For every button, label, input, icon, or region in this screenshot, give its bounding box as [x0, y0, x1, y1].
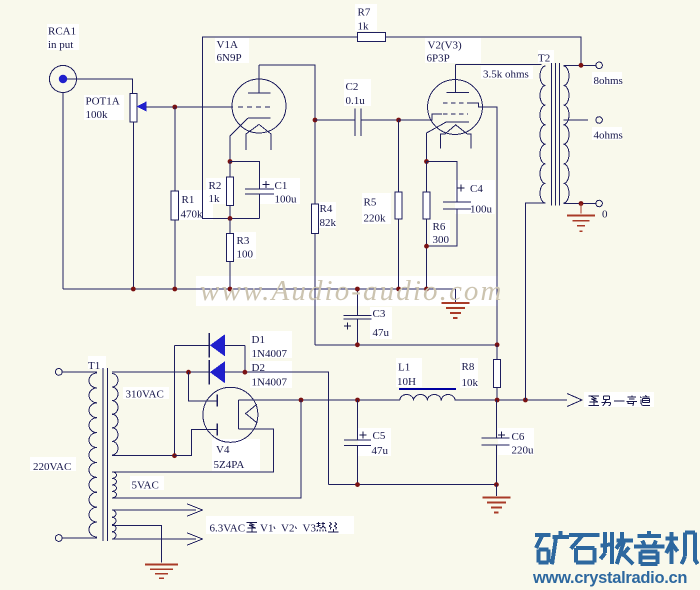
V1A plate	[248, 92, 271, 94]
resistor R7	[357, 33, 385, 42]
wire: wiper to V1 grid	[146, 106, 233, 108]
5VAC top lead to V4 cathode	[112, 429, 273, 472]
ground symbol at secondary 0	[580, 204, 582, 214]
junction at 426.5,161.5	[424, 159, 429, 164]
6.3VAC lead arrow top	[112, 509, 196, 511]
T1 core	[102, 368, 104, 541]
resistor R1 470k	[174, 107, 176, 289]
svg-text:47u: 47u	[373, 327, 390, 339]
junction at 174.5,455.7	[172, 453, 177, 458]
junction at 581,65.3	[579, 63, 584, 68]
capacitor C5 47u filter	[357, 400, 359, 440]
capacitor C2 0.1u coupling	[315, 119, 355, 121]
logo: crystal radio site name	[535, 533, 550, 537]
svg-text:R8: R8	[462, 361, 475, 373]
svg-text:220VAC: 220VAC	[33, 461, 71, 473]
resistor R5 220k grid leak	[398, 120, 400, 289]
svg-text:C1: C1	[275, 180, 288, 192]
junction at 398.6,120	[396, 118, 401, 123]
svg-text:220k: 220k	[364, 213, 387, 225]
resistor R3 100	[229, 218, 231, 289]
junction at 398.6,289	[396, 287, 401, 292]
svg-text:0: 0	[602, 209, 608, 221]
svg-text:1N4007: 1N4007	[252, 377, 288, 389]
ground symbol at 6.3VAC center tap	[145, 564, 178, 566]
junction at 301,400	[299, 398, 304, 403]
svg-text:www.Audio-audio.com: www.Audio-audio.com	[200, 275, 504, 307]
C6 plus sign	[498, 434, 505, 436]
svg-text:5Z4PA: 5Z4PA	[214, 459, 245, 471]
svg-text:C6: C6	[512, 431, 525, 443]
V2 cathode	[446, 121, 469, 123]
svg-text:V2: V2	[281, 523, 294, 535]
V1A grid (dashed)	[238, 106, 273, 108]
T1 310VAC winding	[112, 374, 118, 456]
svg-text:in put: in put	[48, 39, 73, 51]
junction at 357.5,484.6	[355, 482, 360, 487]
svg-text:8ohms: 8ohms	[594, 75, 623, 87]
svg-text:V3: V3	[303, 523, 317, 535]
svg-text:V4: V4	[216, 444, 230, 456]
svg-text:100u: 100u	[470, 204, 493, 216]
secondary 4 ohm tap	[564, 119, 589, 121]
svg-text:www.crystalradio.cn: www.crystalradio.cn	[532, 569, 687, 587]
resistor R8 10k decoupling	[496, 345, 498, 400]
wire: D1 out down to D2 line	[244, 345, 246, 372]
6.3VAC lead arrow bottom	[112, 538, 196, 540]
svg-text:6P3P: 6P3P	[427, 53, 450, 65]
B+ main rail	[239, 399, 401, 401]
ground symbol under C6	[495, 485, 497, 496]
junction at 581,203.5	[579, 201, 584, 206]
svg-text:C2: C2	[346, 81, 359, 93]
junction at 244.9,372.2	[243, 370, 248, 375]
capacitor C6 220u filter	[495, 400, 497, 438]
potentiometer POT1A	[130, 93, 137, 122]
wire: 310V top to V4 top plate	[189, 372, 218, 401]
wire: POT bottom to ground bus	[132, 122, 134, 289]
C5 plus sign	[360, 434, 367, 436]
V2 control grid (dashed)	[443, 113, 468, 115]
svg-text:T2: T2	[538, 53, 550, 65]
svg-text:R2: R2	[209, 180, 222, 192]
junction at 497.1,344.8	[495, 342, 500, 347]
junction at 497.1,400	[495, 398, 500, 403]
svg-text:82k: 82k	[320, 217, 337, 229]
capacitor C3 47u decoupling	[356, 289, 358, 315]
svg-text:D1: D1	[252, 334, 265, 346]
diode D2 1N4007	[189, 371, 209, 373]
ground bus (input stage)	[63, 288, 455, 290]
wire: V2 plate to T2 primary	[456, 64, 542, 66]
label (Chinese): to-other-channel at B+ arrow	[589, 395, 600, 397]
junction at 188.5,372.2	[186, 370, 191, 375]
svg-text:10k: 10k	[462, 377, 479, 389]
RCA jack RCA1	[50, 66, 77, 93]
triode V1A	[232, 79, 286, 133]
ground line (rectifier/filter)	[329, 484, 497, 486]
wire: cathode node to C1 top	[230, 162, 260, 190]
svg-text:1N4007: 1N4007	[252, 348, 288, 360]
svg-text:6.3VAC: 6.3VAC	[210, 523, 246, 535]
junction at 357.4,289	[355, 287, 360, 292]
svg-text:RCA1: RCA1	[48, 26, 76, 38]
wire: D1 anode line down to 310V bottom	[174, 345, 176, 455]
svg-text:470k: 470k	[181, 209, 204, 221]
svg-text:3.5k ohms: 3.5k ohms	[483, 69, 529, 81]
5VAC bottom lead to B+	[112, 400, 301, 498]
terminal 0	[596, 200, 603, 207]
T2 primary winding	[540, 66, 546, 203]
svg-text:R1: R1	[182, 194, 195, 206]
svg-text:V1: V1	[260, 523, 273, 535]
junction at 357.4,344.8	[355, 342, 360, 347]
svg-text:R5: R5	[364, 197, 377, 209]
svg-text:V2(V3): V2(V3)	[428, 40, 463, 52]
resistor R6 300	[426, 162, 428, 290]
V2 screen tap to B+	[468, 103, 498, 345]
junction at 174.8,107	[172, 105, 177, 110]
wire: RCA ground down to ground bus	[62, 93, 64, 290]
T1 5VAC winding	[112, 472, 117, 498]
beam tetrode V2 (6P3P)	[428, 80, 483, 135]
resistor R2 1k	[229, 162, 231, 219]
diode D1 1N4007	[175, 344, 209, 346]
310VAC bottom lead	[112, 455, 175, 457]
svg-text:L1: L1	[398, 362, 410, 374]
secondary 8 ohm lead	[564, 64, 596, 66]
junction at 230,161.5	[228, 159, 233, 164]
T1 primary terminal top	[55, 369, 62, 376]
junction at 230,218.4	[228, 216, 233, 221]
ground symbol at bus end	[454, 289, 456, 303]
junction at 525.4,400	[523, 398, 528, 403]
V4 filament	[246, 404, 257, 422]
svg-text:100k: 100k	[86, 109, 109, 121]
T2 core	[551, 63, 553, 206]
C4 plus sign	[458, 187, 465, 189]
svg-text:1k: 1k	[209, 193, 221, 205]
rectifier tube V4 5Z4PA	[203, 387, 258, 442]
terminal 8ohms	[596, 62, 603, 69]
choke L1 10H	[400, 395, 455, 401]
T1 primary terminal bottom	[55, 535, 62, 542]
T1 primary winding	[89, 373, 97, 537]
capacitor C4 100u cathode bypass	[427, 162, 458, 203]
resistor R4 82k (plate load)	[314, 120, 316, 345]
arrow to other channel	[567, 394, 582, 407]
wire: R2/C1 bottom node with feedback	[230, 217, 260, 219]
wire: 310V bottom to V4 bottom plate	[175, 429, 218, 455]
B+ sub-rail to preamp	[315, 344, 497, 346]
V4 bottom plate	[216, 424, 218, 436]
svg-text:100u: 100u	[275, 194, 298, 206]
junction at 496.4,484.6	[494, 482, 499, 487]
V1A cathode	[248, 117, 271, 119]
svg-text:R7: R7	[358, 7, 371, 19]
V4 top plate	[216, 395, 218, 407]
svg-text:0.1u: 0.1u	[346, 95, 366, 107]
svg-text:POT1A: POT1A	[86, 96, 120, 108]
svg-text:V1A: V1A	[217, 39, 238, 51]
junction at 315,120	[313, 118, 318, 123]
svg-text:C5: C5	[373, 430, 386, 442]
T2 primary bottom lead down to B+	[525, 203, 545, 400]
junction at 357.5,400	[355, 398, 360, 403]
C1 plus sign	[263, 184, 270, 186]
junction at 230,289	[228, 287, 233, 292]
junction at 426.5,289	[424, 287, 429, 292]
wire: feedback line from 8-ohm tap through R7 to V1 cathode network	[203, 37, 582, 218]
svg-text:4ohms: 4ohms	[594, 130, 623, 142]
svg-text:C4: C4	[470, 183, 483, 195]
wiper arrow	[137, 102, 146, 111]
wire: V1A plate up/over to R4 node	[259, 65, 315, 120]
junction at 426.5,246.2	[424, 244, 429, 249]
junction at 133.3,289	[131, 287, 136, 292]
V2 screen grid (dashed)	[443, 102, 468, 104]
svg-text:R3: R3	[237, 235, 250, 247]
V1A heater	[246, 124, 271, 150]
6.3VAC center tap to ground	[112, 526, 161, 563]
svg-text:C3: C3	[373, 308, 386, 320]
svg-text:220u: 220u	[512, 445, 535, 457]
T1 6.3VAC winding	[112, 510, 116, 539]
svg-text:R6: R6	[433, 221, 446, 233]
junction at 174.8,289	[172, 287, 177, 292]
svg-text:100: 100	[237, 249, 254, 261]
wire: grid node into V2	[399, 114, 442, 120]
V2 heater	[440, 125, 471, 149]
310VAC top lead	[112, 371, 189, 373]
V4 cathode	[238, 400, 240, 429]
svg-text:47u: 47u	[372, 445, 389, 457]
capacitor C1 100u	[245, 188, 274, 190]
wire: RCA to POT top	[67, 79, 133, 93]
svg-text:300: 300	[433, 234, 450, 246]
svg-text:6N9P: 6N9P	[217, 52, 242, 64]
T2 secondary winding	[564, 66, 570, 203]
wire: D2 output to rectifier ground line	[225, 372, 329, 484]
V2 plate	[446, 92, 469, 94]
svg-text:1k: 1k	[358, 21, 370, 33]
svg-text:R4: R4	[320, 203, 333, 215]
svg-text:10H: 10H	[397, 376, 416, 388]
C3 plus sign	[344, 325, 351, 327]
svg-text:T1: T1	[88, 360, 100, 372]
terminal 4ohms	[596, 117, 603, 124]
svg-text:310VAC: 310VAC	[126, 389, 164, 401]
secondary 0 lead	[564, 203, 596, 205]
svg-text:5VAC: 5VAC	[132, 480, 159, 492]
